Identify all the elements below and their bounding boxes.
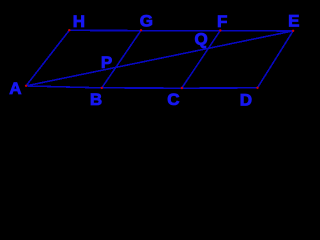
line AD (bottom transversal)	[26, 86, 257, 88]
svg-text:G: G	[140, 12, 153, 31]
point D	[256, 87, 258, 89]
segment CF	[182, 31, 221, 89]
svg-text:E: E	[288, 11, 299, 30]
svg-text:Q: Q	[195, 29, 208, 48]
point F	[219, 29, 221, 31]
segment BG	[102, 30, 141, 88]
point B	[101, 87, 103, 89]
svg-text:C: C	[167, 90, 179, 109]
segment AH	[26, 30, 69, 86]
svg-text:B: B	[90, 90, 102, 109]
point H	[68, 29, 70, 31]
segment DE	[257, 31, 293, 88]
svg-text:F: F	[217, 12, 227, 31]
point C	[181, 87, 183, 89]
point G	[140, 29, 142, 31]
svg-text:A: A	[9, 79, 21, 98]
svg-text:D: D	[240, 90, 252, 109]
svg-text:P: P	[101, 53, 112, 72]
point E	[292, 30, 294, 32]
svg-text:H: H	[73, 12, 85, 31]
diagonal AE through P and Q	[26, 31, 293, 86]
point A	[25, 85, 27, 87]
line HE (top transversal)	[69, 29, 293, 32]
